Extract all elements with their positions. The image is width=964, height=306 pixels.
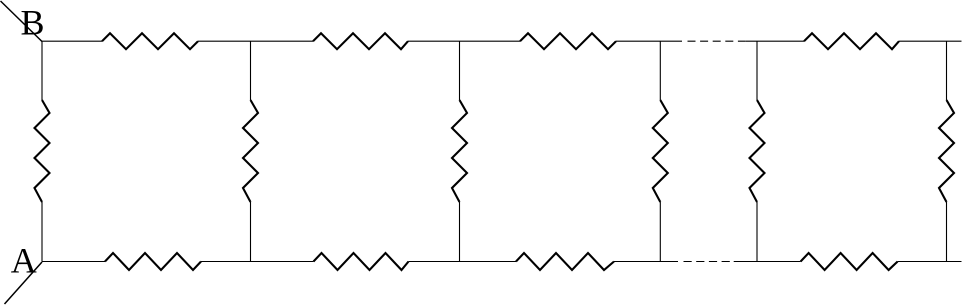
wire column 4 upper <box>659 41 661 100</box>
terminal lead B (diagonal) <box>1 1 43 42</box>
wire column 2 upper <box>250 41 252 100</box>
wire bottom rail segment 6 <box>898 261 962 263</box>
resistor vertical RV6 <box>939 100 954 202</box>
resistor top R3 <box>520 33 616 49</box>
wire top rail dashed continuation <box>688 40 747 42</box>
wire bottom rail segment 5 <box>734 261 801 263</box>
svg-text:A: A <box>11 241 37 281</box>
wire bottom rail dashed continuation <box>684 261 731 263</box>
resistor bottom R8 <box>801 253 898 270</box>
wire column 6 upper <box>946 41 948 100</box>
wire bottom rail segment 4 <box>614 261 678 263</box>
resistor bottom R6 <box>314 253 409 270</box>
wire top rail segment 3 <box>408 40 520 42</box>
resistor vertical RV1 <box>35 100 50 202</box>
resistor vertical RV5 <box>750 100 765 202</box>
wire column 1 upper <box>41 41 43 100</box>
wire column 1 lower <box>41 202 43 262</box>
resistor bottom R5 <box>105 253 201 270</box>
resistor vertical RV2 <box>243 100 258 202</box>
resistor top R1 <box>102 33 198 49</box>
wire bottom rail segment 3 <box>409 261 517 263</box>
wire column 5 lower <box>756 202 758 262</box>
wire top rail segment 5 <box>746 40 804 42</box>
wire top rail segment 6 <box>899 40 962 42</box>
resistor bottom R7 <box>516 253 614 270</box>
resistor top R4 <box>804 33 899 49</box>
wire top rail segment 1 <box>42 40 102 42</box>
svg-text:B: B <box>21 3 45 43</box>
wire column 5 upper <box>756 41 758 100</box>
resistor vertical RV3 <box>452 100 467 202</box>
wire column 2 lower <box>250 202 252 262</box>
wire column 3 upper <box>459 41 461 100</box>
wire column 3 lower <box>459 202 461 262</box>
wire column 6 lower <box>946 202 948 262</box>
wire top rail segment 4 <box>616 40 682 42</box>
wire column 4 lower <box>659 202 661 262</box>
wire bottom rail segment 2 <box>201 261 314 263</box>
resistor vertical RV4 <box>653 100 668 202</box>
wire top rail segment 2 <box>198 40 313 42</box>
terminal lead A (diagonal) <box>5 262 43 304</box>
resistor top R2 <box>313 33 408 49</box>
wire bottom rail segment 1 <box>42 261 105 263</box>
